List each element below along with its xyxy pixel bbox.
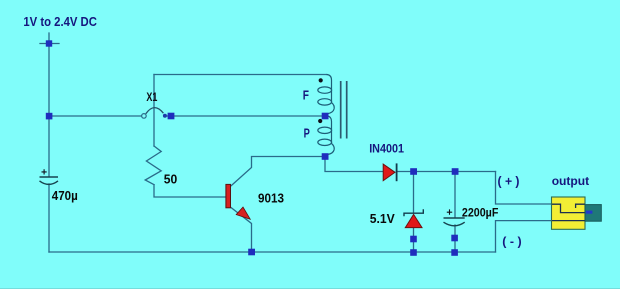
transformer T1 phase dot F [319, 78, 323, 82]
node zener at rail [410, 249, 417, 256]
svg-text:( - ): ( - ) [502, 234, 521, 248]
wire battery positive vertical [48, 44, 50, 177]
svg-text:2200µF: 2200µF [462, 206, 499, 220]
transistor Q1 base bar [226, 184, 231, 207]
svg-text:F: F [303, 87, 309, 102]
wire node to switch X1 [49, 115, 142, 117]
node battery / C1 junction [46, 113, 53, 120]
output connector J1 internal hook contact [576, 204, 585, 208]
svg-text:P: P [304, 125, 311, 140]
capacitor C1 plus sign [42, 169, 47, 174]
transistor Q1 emitter arrow [236, 207, 250, 219]
capacitor C2 plus sign [447, 209, 452, 214]
zener diode D2 triangle [405, 214, 422, 227]
output connector J1 body [552, 197, 586, 229]
wire zener branch top [413, 172, 415, 213]
wire from C1 bottom to ground rail [48, 184, 50, 252]
svg-text:9013: 9013 [258, 192, 284, 206]
svg-text:( + ): ( + ) [498, 175, 520, 189]
junction nodes (blue squares) [46, 40, 459, 256]
transformer T1 phase dot P [318, 119, 322, 123]
svg-text:1V to 2.4V DC: 1V to 2.4V DC [23, 15, 97, 29]
wire output negative feed [496, 221, 553, 252]
node X1 output [168, 113, 175, 120]
transformer T1 primary coil P [318, 116, 334, 155]
wire bottom ground rail [49, 251, 496, 253]
capacitor C1 470u bottom curved plate [40, 181, 59, 185]
wire P coil bottom to diode row [325, 157, 383, 172]
resistor R1 50 ohm zigzag [145, 146, 161, 185]
diode D1 IN4001 triangle [383, 164, 395, 181]
wire top feedback to F coil [154, 74, 327, 76]
node diode row / C2 [452, 168, 459, 175]
wire feedback vertical through X1 [153, 75, 155, 147]
svg-text:output: output [552, 174, 590, 188]
node F-P junction [322, 113, 329, 120]
node diode cathode / zener [410, 168, 417, 175]
node zener lower lead [410, 236, 417, 243]
capacitor C1 470u top plate [40, 176, 59, 178]
wire Q1 emitter to ground rail [230, 207, 251, 252]
output connector J1 plug [585, 205, 601, 222]
node P bottom / collector [322, 153, 329, 160]
output connector J1 internal negative contact [552, 220, 585, 222]
wire resistor bottom to Q1 base [154, 185, 226, 197]
zener diode D2 cathode bar [404, 209, 423, 216]
wire switch X1 to transformer junction [167, 115, 325, 117]
wire output positive feed [496, 172, 553, 205]
wire capacitor C2 branch top [454, 172, 456, 218]
svg-text:50: 50 [164, 172, 178, 186]
svg-text:470µ: 470µ [52, 189, 78, 203]
svg-text:X1: X1 [146, 92, 157, 104]
battery input terminal cross [40, 33, 59, 44]
node emitter to rail [248, 249, 255, 256]
node battery terminal [46, 40, 52, 46]
output connector J1 internal positive contact [552, 204, 585, 212]
node C2 lower lead [451, 235, 458, 242]
output connector J1 plug contact stub [586, 211, 593, 214]
wire zener bottom to rail [413, 228, 415, 252]
capacitor C2 2200uF top plate [444, 217, 465, 219]
wire diode D1 cathode to output corner [397, 171, 496, 173]
diode D1 cathode bar [396, 163, 398, 181]
switch X1 [142, 108, 167, 119]
svg-text:IN4001: IN4001 [369, 141, 404, 155]
transformer T1 feedback coil F [318, 75, 334, 114]
transformer T1 core [341, 81, 347, 139]
node C2 at rail [451, 249, 458, 256]
capacitor C2 2200uF bottom curved plate [444, 222, 465, 226]
svg-text:5.1V: 5.1V [370, 212, 396, 226]
wire Q1 collector [230, 157, 325, 187]
wire capacitor C2 bottom to rail [454, 225, 456, 252]
